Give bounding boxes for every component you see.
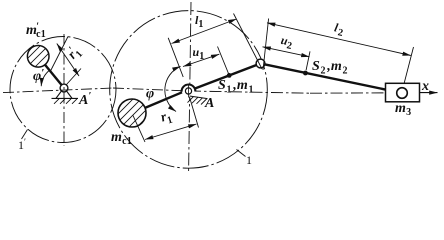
counterweight m'c1 hatched disc bbox=[20, 26, 62, 88]
extension line through B perpendicular to rod bbox=[263, 19, 269, 71]
extension line from A for r1 bbox=[190, 97, 199, 128]
centre of mass S1 dot bbox=[227, 73, 232, 78]
leader for label 1' bbox=[22, 130, 28, 140]
svg-text:u2: u2 bbox=[279, 33, 294, 52]
angle arc phi' bbox=[41, 70, 50, 86]
svg-text:φ: φ bbox=[146, 87, 154, 102]
extension line through S1 perpendicular to AB bbox=[218, 47, 229, 74]
svg-text:S1,m1: S1,m1 bbox=[218, 78, 254, 96]
link arm A to mc1 (crank extension) bbox=[145, 92, 182, 108]
extension line through slider pin perpendicular to rod bbox=[403, 47, 414, 89]
svg-text:1: 1 bbox=[246, 153, 252, 167]
angle arc phi with arrows both ends bbox=[165, 66, 181, 111]
gear pitch circle 1 (crank shaft) bbox=[110, 11, 268, 169]
svg-text:r′1: r′1 bbox=[64, 43, 86, 64]
svg-text:l1: l1 bbox=[195, 13, 203, 30]
svg-text:u1: u1 bbox=[193, 45, 205, 62]
dimension l2 bbox=[267, 23, 411, 56]
link arm A' to m'c1 bbox=[45, 65, 62, 85]
dimension l1 bbox=[172, 19, 237, 44]
crank hub arc at A bbox=[182, 84, 196, 91]
slider block m3 bbox=[386, 83, 420, 102]
crank hub white core bbox=[183, 85, 195, 97]
pivot A journal circle bbox=[185, 88, 191, 94]
counterweight mc1 hatched disc bbox=[110, 76, 158, 144]
wire horizontal centerline middle section bbox=[113, 88, 189, 91]
crank link A to B bbox=[194, 65, 256, 89]
extension line through B perpendicular to AB bbox=[234, 14, 263, 70]
svg-text:r1: r1 bbox=[159, 107, 174, 128]
svg-text:A′: A′ bbox=[78, 91, 92, 108]
centre of mass S2 dot bbox=[303, 71, 308, 76]
pivot A' journal circle bbox=[60, 84, 68, 92]
slider pin circle bbox=[397, 88, 408, 99]
extension line from m'c1 for r'1 bbox=[51, 37, 69, 72]
gear pitch circle 1' (balance shaft) bbox=[10, 37, 116, 143]
ground support legs at A' bbox=[56, 91, 72, 99]
connecting rod B to slider pin bbox=[265, 64, 397, 92]
centerline tick through A bbox=[188, 85, 190, 98]
dimension r1 bbox=[145, 124, 197, 140]
wire vertical centerline through A bbox=[189, 2, 191, 171]
svg-text:m′c1: m′c1 bbox=[26, 22, 46, 41]
extension line from mc1 for r1 bbox=[133, 116, 145, 143]
extension line through S2 perpendicular to rod bbox=[306, 51, 310, 70]
leader for label 1 bbox=[237, 150, 246, 157]
ground line at A bbox=[190, 96, 208, 99]
wire horizontal centerline right section bbox=[189, 91, 310, 93]
svg-text:m3: m3 bbox=[395, 101, 411, 118]
wire vertical centerline through A' bbox=[63, 34, 65, 146]
ground line at A' bbox=[52, 97, 79, 99]
svg-text:mc1: mc1 bbox=[111, 130, 132, 147]
wire horizontal centerline left section bbox=[3, 88, 113, 93]
svg-text:φ′: φ′ bbox=[33, 67, 44, 84]
extension line from A' for r'1 bbox=[67, 69, 82, 85]
dimension u2 bbox=[263, 47, 310, 57]
svg-text:1′: 1′ bbox=[18, 137, 26, 152]
ground hatching at A' bbox=[54, 99, 77, 104]
extension line through A perpendicular to AB bbox=[168, 38, 183, 77]
svg-text:l2: l2 bbox=[332, 20, 345, 39]
svg-text:A: A bbox=[204, 96, 215, 111]
crank pin B joint circle bbox=[256, 59, 265, 68]
dimension r'1 bbox=[57, 44, 79, 77]
ground hatching at A bbox=[188, 97, 208, 105]
svg-text:x: x bbox=[421, 79, 429, 94]
x axis arrow bbox=[420, 92, 438, 94]
dimension u1 bbox=[183, 54, 219, 66]
svg-text:S2,m2: S2,m2 bbox=[312, 59, 348, 77]
